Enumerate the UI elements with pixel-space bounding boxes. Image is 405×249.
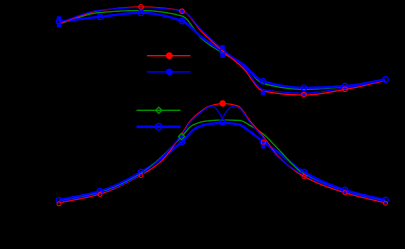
legend top: red entry: [147, 52, 191, 59]
bottom plot: thick blue curve: [59, 123, 386, 200]
bottom plot: green diamond marker: [178, 133, 184, 139]
top plot: thick blue curve: [59, 13, 386, 88]
bottom plot: red curve: [59, 104, 386, 203]
bottom plot: thin blue notch curve: [59, 106, 386, 202]
top plot: thin blue curve: [59, 8, 386, 93]
bottom plot: green curve: [59, 120, 386, 202]
top plot: blue open circle markers: [56, 10, 388, 91]
bottom plot: red filled peak marker: [219, 100, 226, 107]
bottom plot: blue open circle markers: [56, 119, 388, 203]
legend bottom: green entry: [137, 107, 181, 113]
legend top: blue entry: [147, 69, 191, 76]
top plot: blue filled square markers: [57, 9, 306, 96]
legend bottom: thick blue entry: [137, 124, 181, 131]
bottom plot: blue filled square markers: [180, 136, 265, 149]
top plot: green curve: [59, 11, 386, 90]
top plot: red open circle markers: [139, 5, 348, 97]
bottom plot: red open circle markers: [57, 134, 388, 206]
top plot: red curve: [59, 7, 386, 95]
